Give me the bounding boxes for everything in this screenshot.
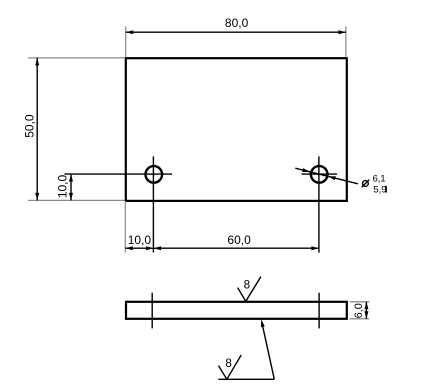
svg-text:80,0: 80,0	[225, 16, 249, 30]
dimension line 80,0	[126, 31, 346, 33]
dimension line 6,0	[365, 302, 367, 319]
centerline horizontal right hole	[302, 173, 338, 175]
extension line top right (for 80,0)	[345, 26, 347, 57]
surface finish symbol top	[238, 277, 261, 302]
bold stroke after 5,9	[385, 186, 387, 193]
centerline vertical right hole (extends to bottom dimension)	[318, 156, 320, 252]
centerline horizontal left hole (merged with 10,0 extension)	[65, 173, 173, 175]
extension line 6,0 bottom	[350, 318, 370, 320]
svg-text:50,0: 50,0	[23, 114, 37, 138]
svg-text:6,1: 6,1	[373, 172, 386, 183]
leader from bottom surface symbol to plate underside	[262, 323, 274, 380]
side view centerline tick right	[318, 293, 320, 329]
svg-text:6,0: 6,0	[353, 303, 365, 318]
svg-text:10,0: 10,0	[56, 174, 70, 198]
hole left (circle)	[146, 166, 163, 183]
centerline vertical left hole (extends to bottom dimension)	[152, 156, 154, 252]
plate outline (top view)	[126, 58, 347, 201]
svg-text:8: 8	[225, 357, 232, 370]
bottom dimension line (10,0 and 60,0)	[125, 247, 319, 249]
diameter leader line through right hole	[295, 168, 358, 184]
dimension line 50,0	[36, 58, 38, 201]
extension line left bottom (for 50,0 and 10,0)	[28, 199, 125, 201]
surface finish shelf line bottom	[218, 378, 274, 380]
svg-text:10,0: 10,0	[128, 233, 152, 247]
svg-text:60,0: 60,0	[227, 233, 251, 247]
svg-text:8: 8	[244, 278, 251, 291]
extension line 6,0 top	[350, 301, 370, 303]
plate outline (side view)	[126, 302, 347, 319]
side view centerline tick left	[151, 293, 153, 329]
dimension line 10,0 (left, hole height)	[70, 174, 72, 200]
extension line below rect left edge	[124, 201, 126, 253]
extension line top left (for 80,0)	[125, 26, 127, 57]
extension line left top (for 50,0)	[28, 57, 125, 59]
diameter symbol	[363, 181, 369, 187]
surface finish symbol bottom	[219, 355, 242, 379]
svg-text:5,9: 5,9	[373, 184, 386, 195]
hole right (circle)	[311, 166, 328, 183]
